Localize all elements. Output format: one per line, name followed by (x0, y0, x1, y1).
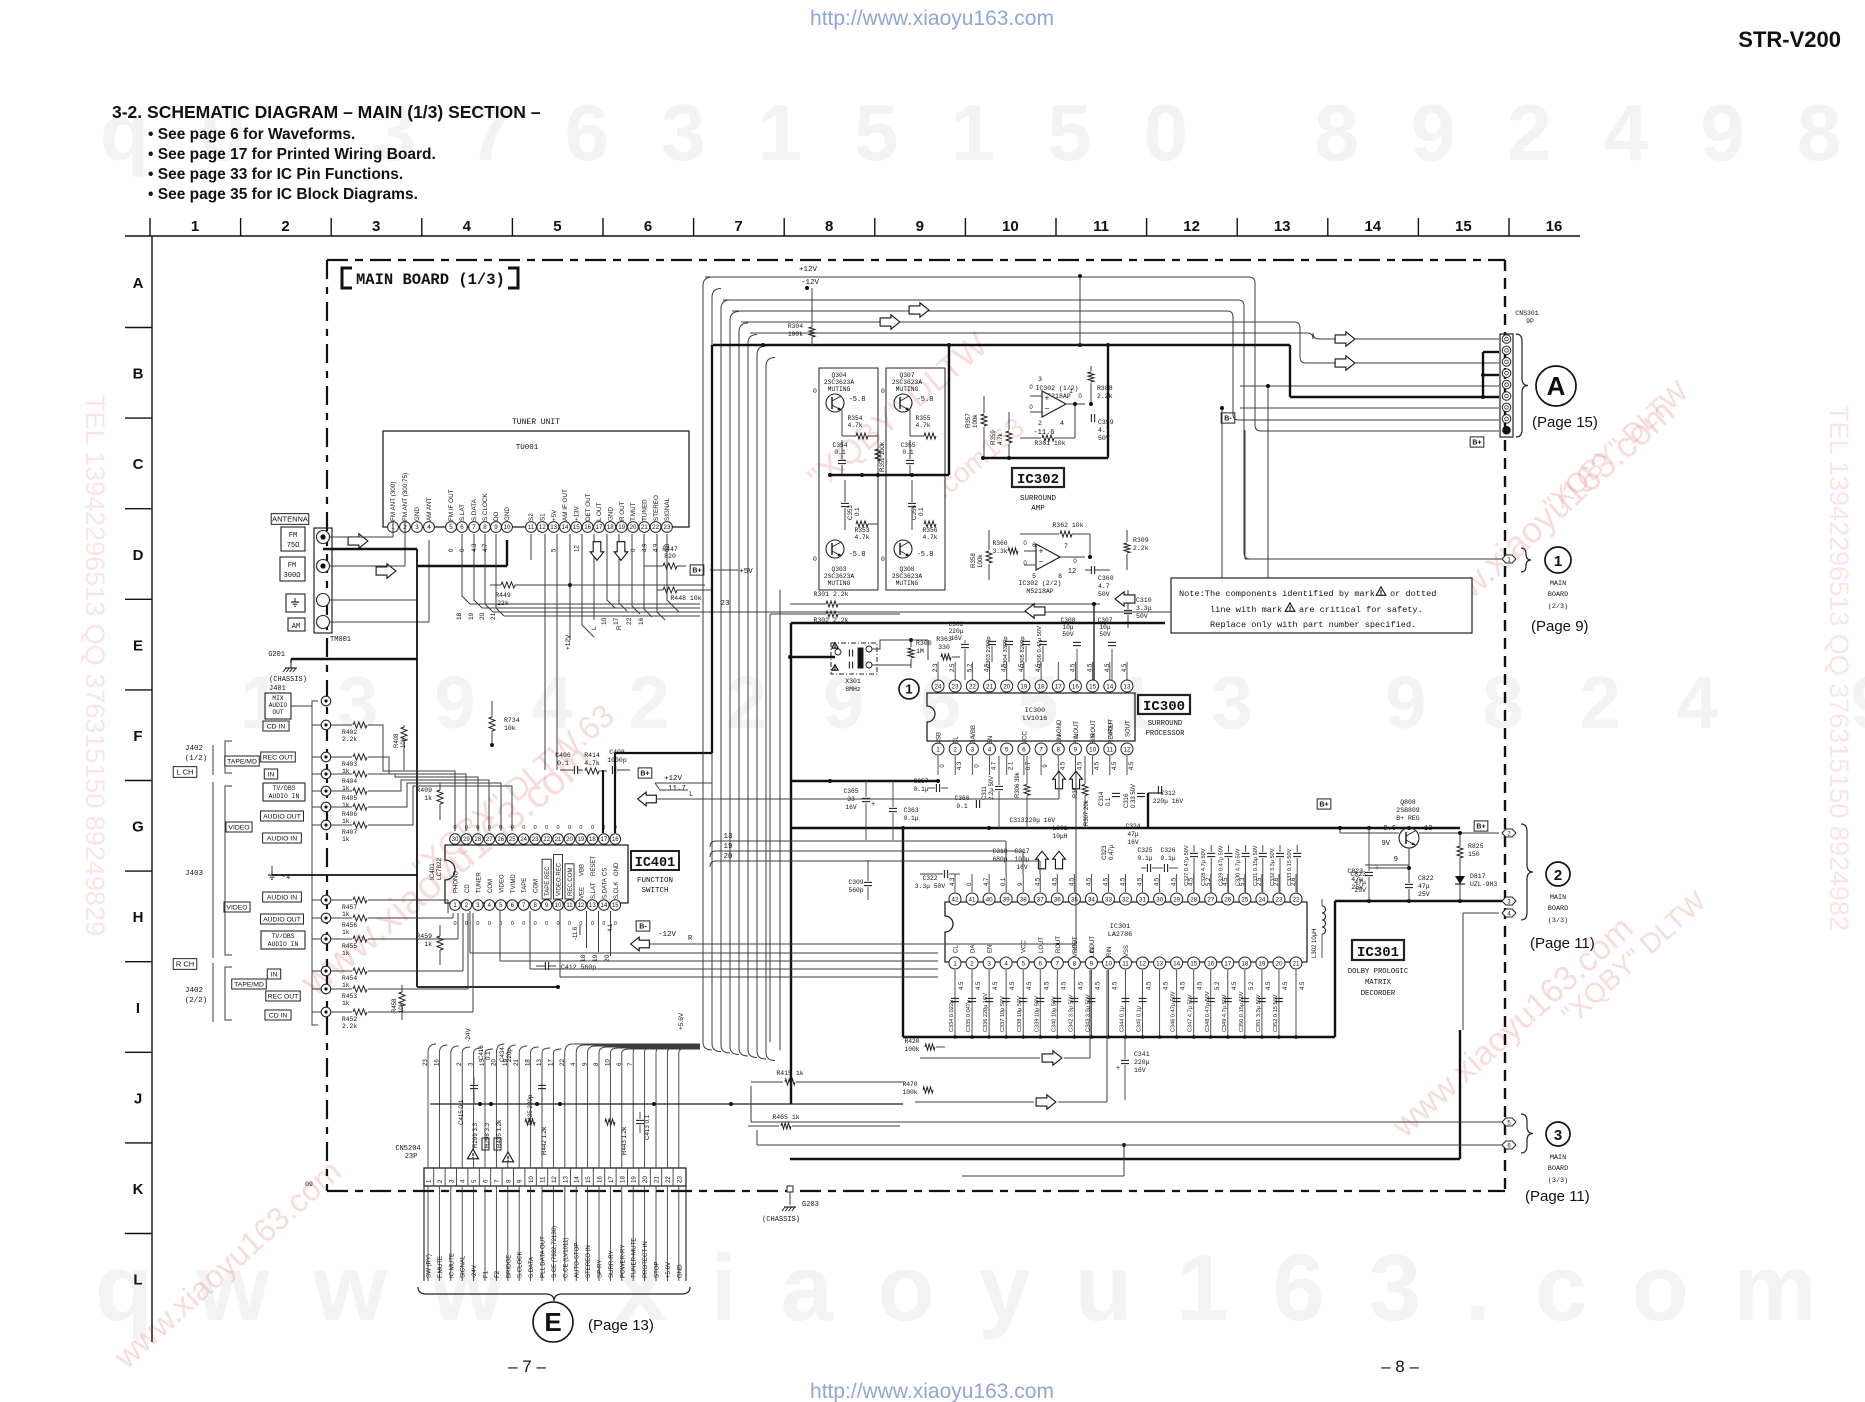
svg-text:0: 0 (1078, 394, 1082, 400)
svg-text:LV1016: LV1016 (1023, 715, 1047, 723)
svg-text:R454: R454 (342, 975, 357, 982)
svg-text:25: 25 (509, 837, 516, 843)
resistor R452 2.2k (331, 1009, 383, 1030)
svg-text:SIGNAL: SIGNAL (664, 497, 671, 521)
svg-text:CNS301: CNS301 (1515, 310, 1539, 317)
svg-text:23: 23 (422, 1059, 429, 1066)
svg-text:CD IN: CD IN (267, 723, 286, 730)
svg-text:(CHASSIS): (CHASSIS) (762, 1216, 800, 1224)
svg-text:16: 16 (612, 837, 619, 843)
inductor L302 10uH (1312, 899, 1326, 958)
svg-text:VSS: VSS (1124, 945, 1130, 957)
wire bus top horizontals (705, 266, 1499, 612)
svg-text:R457: R457 (342, 904, 357, 911)
svg-text:16V: 16V (1134, 1067, 1146, 1074)
svg-text:330: 330 (938, 644, 950, 651)
svg-text:LA2786: LA2786 (1108, 931, 1132, 939)
svg-text:220μ 16V: 220μ 16V (1025, 817, 1055, 824)
components below IC300 (843, 756, 1183, 900)
svg-text:27: 27 (1207, 896, 1215, 903)
svg-text:100k: 100k (904, 1046, 919, 1053)
svg-text:MUTING: MUTING (828, 580, 851, 587)
connector E to page 13 (533, 1302, 654, 1342)
svg-text:21: 21 (513, 1059, 520, 1066)
svg-text:C341: C341 (1134, 1051, 1150, 1058)
wires IC300 pins up (938, 602, 1127, 680)
svg-text:R359: R359 (990, 430, 997, 445)
svg-text:2SC3623A: 2SC3623A (892, 379, 922, 386)
power label B- at IC401 (636, 921, 650, 931)
svg-text:FM ANT (300): FM ANT (300) (390, 482, 397, 521)
power label B+ at IC401 (638, 768, 652, 778)
svg-text:VIDEO: VIDEO (226, 904, 247, 911)
svg-text:C347 4.7μ 50V: C347 4.7μ 50V (1188, 994, 1194, 1032)
svg-text:0.47μ: 0.47μ (1109, 844, 1115, 860)
svg-text:C351 3.3μ 50V: C351 3.3μ 50V (1256, 994, 1262, 1032)
svg-text:30: 30 (452, 837, 459, 843)
svg-text:100k: 100k (902, 1089, 917, 1096)
svg-text:13942296513 9824 98: 13942296513 9824 98 (240, 661, 1865, 744)
svg-text:4.5: 4.5 (1077, 761, 1083, 770)
svg-text:R449: R449 (495, 592, 511, 599)
resistor R457 1k (331, 897, 383, 918)
resistor R825 150 (1457, 831, 1484, 870)
svg-text:0: 0 (488, 921, 491, 927)
svg-text:8: 8 (825, 218, 833, 235)
svg-text:17: 17 (613, 617, 620, 625)
svg-text:20: 20 (479, 612, 486, 620)
svg-text:11: 11 (528, 524, 535, 531)
svg-text:0: 0 (1029, 405, 1033, 411)
svg-text:9: 9 (1090, 960, 1094, 967)
svg-text:4.5: 4.5 (993, 981, 999, 990)
resistor R300 1M (872, 638, 932, 668)
svg-text:13: 13 (1156, 960, 1164, 967)
svg-text:10: 10 (601, 617, 608, 625)
svg-text:R353: R353 (854, 527, 869, 534)
svg-text:LOUT: LOUT (1039, 937, 1045, 953)
svg-text:SIGNAL: SIGNAL (460, 1255, 467, 1278)
IC301 pins 42-22 (949, 874, 1302, 953)
svg-text:R403: R403 (342, 761, 357, 768)
svg-text:-5.8: -5.8 (849, 551, 866, 559)
svg-text:5: 5 (1005, 746, 1009, 753)
svg-text:12: 12 (551, 1176, 558, 1183)
svg-text:23: 23 (664, 524, 671, 531)
resistor R455 1k (331, 936, 383, 957)
svg-text:2: 2 (1038, 420, 1042, 427)
resistor R458 10k (392, 985, 405, 1020)
IC301 label (1348, 940, 1409, 998)
svg-text:47μ: 47μ (1127, 831, 1139, 838)
capacitor C822 47u 25V (1405, 875, 1434, 901)
svg-text:10μ: 10μ (1062, 624, 1073, 631)
resistor R453 1k (331, 986, 383, 1007)
svg-text:C416: C416 (478, 1045, 485, 1060)
svg-text:−: − (1045, 404, 1050, 413)
IC401 pins 16-30 (450, 834, 621, 899)
svg-text:12: 12 (1123, 746, 1131, 753)
svg-text:S.LAT: S.LAT (459, 504, 466, 521)
svg-text:10: 10 (604, 1059, 611, 1066)
svg-text:-5.8: -5.8 (849, 396, 866, 404)
svg-text:7: 7 (1064, 543, 1068, 550)
svg-text:R442 1.2k: R442 1.2k (541, 1126, 548, 1155)
svg-text:VIDEO.REC: VIDEO.REC (557, 862, 563, 896)
svg-text:FM ANT (300,75): FM ANT (300,75) (402, 473, 409, 521)
svg-text:8MHz: 8MHz (845, 686, 861, 693)
svg-text:R298 3.3: R298 3.3 (484, 1122, 491, 1148)
svg-text:4.3: 4.3 (472, 543, 478, 552)
resistor R408 10k (394, 725, 407, 770)
svg-text:0: 0 (602, 921, 605, 927)
svg-text:29: 29 (463, 837, 470, 843)
svg-text:15: 15 (1190, 960, 1198, 967)
capacitor C434 220p (499, 1047, 513, 1062)
svg-text:R415 1k: R415 1k (776, 1070, 803, 1077)
svg-text:16: 16 (597, 1176, 604, 1183)
svg-text:220μ 16V: 220μ 16V (1153, 798, 1183, 805)
connector CNS301 9P (1500, 310, 1539, 437)
svg-text:0.33 50V: 0.33 50V (1131, 784, 1137, 808)
svg-text:SOUT: SOUT (1125, 720, 1131, 737)
svg-text:19: 19 (1020, 683, 1028, 690)
connector A to page 15 (1532, 366, 1598, 431)
resistor R298 3.3 (484, 1122, 514, 1162)
svg-text:C412 560p: C412 560p (561, 964, 596, 971)
svg-text:POWER-RY: POWER-RY (619, 1245, 626, 1278)
svg-text:0.1μ: 0.1μ (913, 786, 928, 793)
svg-text:G201: G201 (268, 651, 285, 659)
svg-text:C338 10μ 50V: C338 10μ 50V (1017, 996, 1023, 1032)
antenna label (271, 514, 309, 525)
svg-text:+12V: +12V (565, 634, 572, 650)
svg-text:M5218AP: M5218AP (1026, 588, 1053, 595)
resistor R363 330 (936, 636, 960, 660)
svg-text:4: 4 (570, 1062, 577, 1066)
svg-text:12: 12 (574, 545, 580, 552)
svg-text:22: 22 (652, 524, 659, 531)
svg-text:F.MUTE: F.MUTE (437, 1256, 444, 1278)
svg-text:IC302 (2/2): IC302 (2/2) (1019, 580, 1062, 587)
svg-text:18: 18 (1038, 683, 1046, 690)
capacitor C416 0.1 (478, 1045, 492, 1060)
svg-text:100k: 100k (977, 554, 984, 568)
svg-text:1k: 1k (342, 836, 350, 843)
svg-text:3: 3 (415, 524, 419, 531)
svg-text:VSB: VSB (937, 732, 943, 744)
svg-text:E: E (133, 637, 143, 654)
svg-text:R459: R459 (416, 933, 432, 940)
IC300 pins 24-13 (932, 663, 1133, 737)
svg-text:L: L (591, 626, 598, 630)
connector CN5204 23P (395, 1145, 686, 1186)
resistor R355 4.7k (910, 410, 936, 439)
connector 3 to main board 3/3 (751, 1086, 1590, 1205)
svg-text:C.CE (LV1011): C.CE (LV1011) (562, 1238, 569, 1278)
svg-text:26: 26 (1224, 896, 1232, 903)
svg-text:R405: R405 (342, 795, 357, 802)
svg-text:C360: C360 (1098, 575, 1114, 582)
svg-text:PROCESSOR: PROCESSOR (1146, 730, 1186, 738)
svg-text:IC301: IC301 (1110, 923, 1130, 931)
svg-text:Replace only with part number: Replace only with part number specified. (1210, 620, 1416, 630)
svg-text:2.2k: 2.2k (342, 1023, 357, 1030)
svg-text:5.2: 5.2 (1215, 981, 1221, 990)
IC300 pins 1-12 (932, 719, 1135, 771)
wire block arrows mid (1025, 592, 1135, 618)
svg-text:VCC: VCC (1022, 940, 1028, 953)
svg-text:3.3k: 3.3k (992, 548, 1007, 555)
power label B+ Q808 (1474, 821, 1488, 831)
svg-text:1k: 1k (424, 941, 432, 948)
svg-text:50V: 50V (1099, 631, 1110, 638)
FM 300 ohm jack label (280, 557, 305, 581)
svg-text:(1/2): (1/2) (185, 755, 208, 763)
svg-text:1000p: 1000p (607, 757, 627, 764)
svg-text:2.2k: 2.2k (1097, 393, 1113, 400)
svg-text:2: 2 (1554, 867, 1562, 884)
op-amp IC302 1/2 M5218AP (1029, 376, 1085, 437)
svg-text:TAPE.REC: TAPE.REC (545, 866, 551, 896)
svg-text:13: 13 (550, 524, 557, 531)
svg-text:10: 10 (555, 903, 562, 909)
svg-text:8: 8 (483, 524, 487, 531)
capacitor C823 47u 25V (1347, 828, 1379, 901)
svg-text:B+: B+ (692, 568, 701, 575)
svg-text:R355: R355 (915, 415, 930, 422)
svg-text:• See page 17 for Printed Wir: • See page 17 for Printed Wiring Board. (148, 146, 436, 163)
svg-text:21: 21 (555, 837, 562, 843)
svg-text:TM001: TM001 (330, 636, 351, 644)
svg-text:12: 12 (1068, 568, 1076, 576)
svg-text:22: 22 (665, 1176, 672, 1183)
svg-text:09: 09 (305, 1181, 313, 1188)
svg-text:C340 10μ 50V: C340 10μ 50V (1051, 996, 1057, 1032)
wire arrows to IC301 (915, 970, 1126, 1176)
svg-text:X301: X301 (845, 678, 861, 685)
svg-text:16V: 16V (845, 804, 857, 811)
svg-text:13: 13 (536, 1059, 543, 1066)
svg-text:1: 1 (1069, 388, 1073, 395)
wires IC300 pins down (938, 756, 1127, 775)
main board border (327, 259, 1505, 261)
svg-text:IN: IN (271, 971, 278, 978)
svg-text:0.1: 0.1 (557, 760, 569, 767)
svg-text:19: 19 (578, 837, 585, 843)
svg-text:16V: 16V (1127, 839, 1139, 846)
svg-text:• See page 35 for IC Block Dia: • See page 35 for IC Block Diagrams. (148, 186, 418, 203)
resistor R357 100k (965, 396, 987, 458)
svg-text:50V: 50V (1062, 631, 1073, 638)
svg-text:16: 16 (584, 524, 591, 531)
svg-text:C822: C822 (1418, 875, 1434, 882)
svg-text:18: 18 (456, 612, 463, 620)
svg-text:11: 11 (1107, 746, 1114, 753)
svg-text:4.5: 4.5 (1266, 981, 1272, 990)
svg-text:C324: C324 (1125, 823, 1140, 830)
svg-text:0.1: 0.1 (902, 449, 914, 456)
svg-text:PROTECT IN: PROTECT IN (642, 1241, 649, 1278)
svg-text:RESET: RESET (591, 856, 597, 876)
svg-text:DET OUT: DET OUT (585, 493, 592, 521)
svg-text:C336 220μ 16V: C336 220μ 16V (983, 993, 989, 1032)
svg-text:S2: S2 (528, 513, 535, 521)
svg-text:5: 5 (1032, 573, 1036, 580)
svg-text:www.xiaoyu163.com: www.xiaoyu163.com (1384, 909, 1640, 1145)
svg-text:R448 10k: R448 10k (670, 595, 701, 602)
resistor R405 1k (331, 788, 383, 809)
svg-text:BRIDGE: BRIDGE (505, 1255, 512, 1278)
svg-text:REVOUT: REVOUT (1108, 719, 1114, 744)
resistor R404 1k (331, 771, 383, 792)
resistor R465 1k (748, 1114, 900, 1129)
svg-text:220p: 220p (506, 1048, 513, 1062)
svg-text:L302 10μH: L302 10μH (1312, 929, 1318, 958)
wire -12V R (631, 931, 693, 951)
svg-text:28: 28 (1190, 896, 1198, 903)
svg-text:(3/3): (3/3) (1548, 917, 1568, 925)
svg-text:+5V: +5V (551, 509, 558, 521)
svg-text:75Ω: 75Ω (287, 542, 300, 550)
svg-text:1k: 1k (342, 1000, 350, 1007)
svg-text:1: 1 (936, 746, 940, 753)
svg-text:16: 16 (1072, 683, 1080, 690)
svg-text:LC7822: LC7822 (436, 857, 443, 880)
svg-text:3.3μ 50V: 3.3μ 50V (915, 883, 945, 890)
svg-text:0: 0 (881, 388, 885, 395)
svg-text:SURROUND: SURROUND (1020, 495, 1057, 503)
power label B- top (1221, 413, 1235, 423)
svg-text:A: A (1547, 371, 1566, 401)
svg-text:STEREO: STEREO (653, 495, 660, 521)
svg-text:FM IF OUT: FM IF OUT (448, 489, 455, 521)
svg-text:2.1: 2.1 (1009, 761, 1015, 770)
capacitor C341 220u 16V (1116, 1037, 1150, 1100)
svg-text:6: 6 (1038, 960, 1042, 967)
svg-text:S.CLOCK: S.CLOCK (517, 1251, 524, 1278)
svg-text:J401: J401 (269, 685, 286, 693)
svg-text:4.5: 4.5 (1095, 981, 1101, 990)
svg-text:AMP: AMP (1031, 505, 1045, 513)
svg-text:VIDEO: VIDEO (228, 824, 249, 831)
svg-text:F1: F1 (483, 1270, 490, 1278)
svg-text:22: 22 (1292, 896, 1300, 903)
svg-text:IC301: IC301 (1357, 945, 1399, 961)
svg-text:23: 23 (532, 837, 539, 843)
svg-text:8: 8 (1057, 746, 1061, 753)
svg-text:41: 41 (969, 896, 977, 903)
svg-text:21: 21 (641, 524, 648, 531)
svg-text:DOLBY PROLOGIC: DOLBY PROLOGIC (1348, 968, 1409, 976)
svg-text:0: 0 (591, 921, 594, 927)
svg-text:AUDIO OUT: AUDIO OUT (263, 916, 301, 923)
svg-text:C310: C310 (1136, 597, 1152, 604)
svg-text:9: 9 (1043, 764, 1049, 768)
svg-text:Q808: Q808 (1400, 799, 1416, 806)
svg-text:16V: 16V (1016, 864, 1028, 871)
svg-text:R356: R356 (922, 527, 937, 534)
svg-text:4.5: 4.5 (1181, 981, 1187, 990)
svg-text:C342 3.3μ 50V: C342 3.3μ 50V (1068, 994, 1074, 1032)
power label B+ (690, 565, 704, 575)
svg-text:R301 2.2k: R301 2.2k (813, 591, 848, 598)
svg-text:4.1: 4.1 (608, 923, 614, 932)
svg-text:AUDIO IN: AUDIO IN (269, 793, 300, 800)
svg-text:22: 22 (559, 1059, 566, 1066)
svg-text:STEREO IN: STEREO IN (585, 1245, 592, 1278)
svg-text:R408: R408 (394, 733, 400, 748)
svg-text:CD IN: CD IN (269, 1012, 288, 1019)
wire L R to IC300 (649, 772, 1076, 944)
svg-text:STOP: STOP (654, 1262, 661, 1278)
wire antenna to tuner (291, 521, 507, 663)
svg-text:R409: R409 (416, 787, 432, 794)
svg-text:+: + (1039, 547, 1044, 556)
svg-text:8: 8 (505, 1179, 512, 1183)
wire bold IC301 buses (790, 899, 1502, 1159)
svg-text:5: 5 (449, 524, 453, 531)
svg-text:Q308: Q308 (899, 566, 914, 573)
svg-text:25V: 25V (1354, 887, 1366, 894)
wire Q808 base (1365, 828, 1409, 865)
svg-text:STR-V200: STR-V200 (1738, 27, 1841, 52)
svg-text:C: C (133, 456, 144, 473)
svg-text:12: 12 (1183, 218, 1200, 235)
capacitors right of IC301 top (1184, 845, 1301, 893)
svg-text:C354: C354 (832, 442, 847, 449)
svg-text:R452: R452 (342, 1016, 357, 1023)
svg-text:+: + (1116, 1065, 1120, 1072)
svg-text:820: 820 (664, 553, 676, 560)
svg-text:6: 6 (483, 1179, 490, 1183)
svg-text:18: 18 (1241, 960, 1249, 967)
svg-text:10: 10 (1002, 218, 1019, 235)
resistor R447 820 (644, 540, 686, 569)
svg-text:UZL-9H3: UZL-9H3 (1470, 881, 1497, 888)
transistor Q303 2SC3623A MUTING (813, 540, 865, 587)
svg-text:18: 18 (619, 1176, 626, 1183)
svg-text:AM IF OUT: AM IF OUT (562, 489, 569, 521)
resistor R358 100k (970, 530, 992, 580)
svg-text:1k: 1k (342, 818, 350, 825)
resistor R442 1.2k (525, 1119, 548, 1155)
svg-text:13: 13 (1123, 683, 1131, 690)
svg-text:S1: S1 (540, 513, 547, 521)
svg-text:C434: C434 (499, 1047, 506, 1062)
svg-text:12: 12 (539, 524, 546, 531)
svg-text:4.7k: 4.7k (854, 534, 869, 541)
wire R out (593, 534, 595, 620)
capacitor C406 0.1 (555, 752, 583, 774)
svg-text:7: 7 (627, 1062, 634, 1066)
svg-text:BOARD: BOARD (1548, 591, 1568, 599)
svg-text:0: 0 (522, 825, 525, 831)
FM 75 ohm jack label (281, 527, 305, 551)
svg-text:6: 6 (460, 524, 464, 531)
transistor Q308 2SC3623A MUTING (881, 540, 933, 587)
svg-text:C355: C355 (900, 442, 915, 449)
svg-text:1: 1 (1554, 553, 1562, 570)
svg-text:FM: FM (289, 532, 297, 540)
svg-text:0: 0 (449, 548, 455, 552)
svg-text:13: 13 (1274, 218, 1291, 235)
svg-text:680p: 680p (992, 856, 1007, 863)
grid column ruler (125, 218, 1580, 236)
svg-text:11: 11 (1093, 218, 1109, 235)
capacitor C356 0.1 (908, 480, 925, 530)
wire antenna arrows (348, 534, 396, 578)
